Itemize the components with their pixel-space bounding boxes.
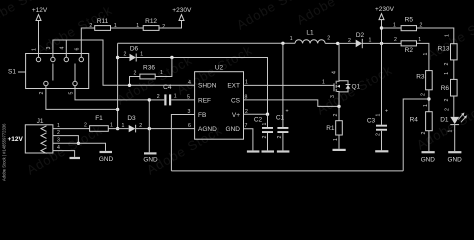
wire EXT to Q1 gate: [244, 84, 335, 86]
LED D1: [440, 108, 467, 151]
junction dot +230V rail: [380, 42, 383, 45]
diode D6: [118, 46, 172, 62]
wire V+ to node: [244, 113, 268, 115]
wire +12V to S1 pin1: [38, 21, 40, 58]
resistor R5: [382, 17, 454, 44]
svg-text:1: 1: [32, 48, 38, 51]
wire S1 pin5 to C4/REF row: [75, 86, 149, 100]
wire J1 pin3 to ground: [53, 143, 106, 151]
svg-text:1: 1: [110, 123, 113, 129]
svg-text:R4: R4: [410, 116, 419, 123]
svg-text:2: 2: [134, 71, 137, 77]
svg-text:REF: REF: [198, 97, 211, 104]
svg-text:+: +: [286, 109, 289, 115]
svg-text:GND: GND: [143, 157, 158, 164]
svg-text:2: 2: [333, 114, 339, 117]
ground C3: [375, 150, 388, 152]
svg-text:1: 1: [393, 23, 396, 29]
svg-text:2: 2: [39, 92, 45, 95]
svg-text:C2: C2: [254, 117, 263, 124]
svg-text:+230V: +230V: [172, 7, 192, 14]
resistor R11: [89, 18, 117, 30]
power +230V right: [375, 6, 395, 20]
wire S1 pin6 up to R11: [81, 28, 94, 57]
wire F1 to D3: [108, 128, 128, 130]
svg-text:2: 2: [157, 94, 160, 100]
junction dot V+ node: [266, 113, 269, 116]
junction dot D6/R36: [170, 56, 173, 59]
svg-text:1: 1: [122, 123, 125, 129]
svg-text:2: 2: [89, 23, 92, 29]
junction dot D6 row: [116, 56, 119, 59]
svg-text:FB: FB: [198, 112, 206, 119]
svg-text:1: 1: [448, 130, 454, 133]
svg-text:2: 2: [420, 23, 423, 29]
svg-text:+12V: +12V: [8, 136, 24, 143]
junction dot pin2/pin3: [77, 142, 80, 145]
svg-text:R12: R12: [145, 18, 157, 25]
svg-text:R1: R1: [326, 125, 335, 132]
wire FB to bottom rail: [171, 115, 194, 171]
svg-text:1: 1: [290, 36, 293, 42]
svg-text:J1: J1: [37, 118, 44, 125]
wire node to ground: [148, 129, 150, 153]
svg-text:6: 6: [188, 123, 191, 129]
svg-text:1: 1: [445, 34, 451, 37]
svg-text:2: 2: [124, 52, 127, 58]
transistor Q1: [322, 43, 361, 106]
ground U2 pin7: [247, 150, 260, 152]
wire S1 pin3/pin4 rail to SHDN: [53, 40, 195, 85]
junction dot REF row C4: [148, 98, 151, 101]
svg-text:1: 1: [322, 80, 325, 86]
svg-text:2: 2: [444, 63, 450, 66]
svg-text:1: 1: [423, 53, 429, 56]
svg-text:R6: R6: [441, 85, 450, 92]
svg-text:+: +: [385, 109, 388, 115]
power +12V: [32, 7, 48, 21]
svg-text:4: 4: [332, 71, 338, 74]
junction dot R36/SHDN: [128, 84, 131, 87]
wire CS to source node: [244, 100, 340, 107]
svg-text:3: 3: [188, 109, 191, 115]
svg-text:CS: CS: [231, 97, 241, 104]
svg-text:R5: R5: [405, 17, 414, 24]
junction dot Q1 source node: [337, 105, 340, 108]
connector J1: [8, 118, 61, 153]
svg-text:3: 3: [46, 47, 52, 50]
wire L1 to D2: [325, 42, 356, 44]
capacitor C3: [367, 109, 388, 151]
ground R4: [421, 151, 436, 163]
svg-text:R3: R3: [416, 74, 425, 81]
svg-text:1: 1: [369, 38, 372, 44]
svg-text:6: 6: [75, 48, 81, 51]
svg-text:U2: U2: [215, 65, 224, 72]
svg-text:1: 1: [262, 123, 268, 126]
wire D3 to AGND pin: [136, 128, 195, 130]
svg-text:2: 2: [421, 93, 427, 96]
svg-text:SHDN: SHDN: [198, 83, 217, 90]
svg-text:5: 5: [68, 92, 74, 95]
diode D3: [122, 115, 143, 133]
wire U2 GND pin to ground: [244, 129, 253, 151]
svg-text:Adobe Stock | #148559772336: Adobe Stock | #148559772336: [2, 123, 7, 181]
svg-text:2: 2: [376, 133, 382, 136]
svg-text:1: 1: [174, 94, 177, 100]
bottom rail (feedback): [171, 170, 403, 172]
svg-text:R2: R2: [405, 47, 414, 54]
resistor R4: [410, 104, 433, 151]
svg-text:4: 4: [188, 80, 191, 86]
wire J1 pin1 to F1: [53, 128, 90, 130]
resistor R2: [394, 37, 429, 71]
svg-text:1: 1: [418, 37, 421, 43]
svg-text:EXT: EXT: [227, 83, 240, 90]
svg-text:3: 3: [330, 95, 336, 98]
svg-text:C4: C4: [163, 84, 172, 91]
svg-text:L1: L1: [306, 30, 314, 37]
svg-text:V+: V+: [232, 112, 240, 119]
resistor R3: [416, 71, 432, 112]
ground C2: [262, 150, 275, 152]
svg-text:GND: GND: [421, 157, 436, 164]
svg-text:4: 4: [60, 47, 66, 50]
junction dot Q1 drain tap: [336, 42, 339, 45]
junction dot R3/R4: [427, 97, 430, 100]
diode D2: [348, 32, 372, 48]
svg-text:R11: R11: [97, 18, 109, 25]
svg-text:R36: R36: [143, 65, 155, 72]
svg-text:2: 2: [84, 123, 87, 129]
wire D6 row to V+ drop: [172, 58, 268, 115]
svg-text:GND: GND: [226, 126, 241, 133]
resistor R13: [438, 34, 458, 79]
svg-text:2: 2: [162, 24, 165, 30]
ground D1: [447, 151, 462, 163]
ground C1: [277, 150, 290, 152]
svg-text:2: 2: [394, 37, 397, 43]
capacitor C2: [254, 114, 273, 150]
svg-text:1: 1: [333, 138, 339, 141]
wire R12 to +230V: [159, 21, 182, 29]
svg-text:GND: GND: [447, 157, 462, 164]
svg-text:1: 1: [376, 114, 382, 117]
wire R11 to R12: [111, 27, 144, 29]
junction dot R5 row: [380, 26, 383, 29]
wire S1 pin2 to bus: [46, 86, 118, 110]
svg-text:2: 2: [445, 108, 451, 111]
svg-text:2: 2: [421, 132, 427, 135]
watermark: [0, 0, 474, 181]
resistor R36: [130, 58, 172, 86]
fuse F1: [84, 115, 113, 131]
inductor L1: [290, 30, 331, 44]
svg-text:3: 3: [57, 138, 60, 144]
svg-text:AGND: AGND: [198, 126, 217, 133]
capacitor C4: [149, 84, 194, 105]
wire C4 node down to AGND row: [148, 100, 150, 129]
wire S1 pin4 stub: [65, 40, 67, 57]
svg-text:1: 1: [444, 72, 450, 75]
svg-text:F1: F1: [95, 115, 103, 122]
svg-text:+12V: +12V: [32, 7, 48, 14]
svg-text:7: 7: [245, 123, 248, 129]
svg-text:1: 1: [140, 52, 143, 58]
junction dot C1 tap: [281, 42, 284, 45]
svg-text:GND: GND: [99, 156, 114, 163]
junction dot D3/C4 ground node: [148, 127, 151, 130]
svg-text:1: 1: [245, 80, 248, 86]
wire R3/R4 node to bottom rail: [403, 99, 429, 171]
svg-text:2: 2: [327, 36, 330, 42]
svg-text:Q1: Q1: [352, 84, 361, 91]
svg-text:D3: D3: [127, 115, 136, 122]
svg-text:5: 5: [187, 95, 190, 101]
junction dot AGND row join: [116, 127, 119, 130]
svg-text:+230V: +230V: [375, 6, 395, 13]
resistor R1: [326, 106, 342, 148]
wire J1 pin4 to ground: [53, 151, 75, 157]
ground D3 node: [143, 152, 158, 163]
op-amp/controller U2: [187, 65, 248, 140]
wire rail A to L1: [118, 42, 295, 44]
svg-text:2: 2: [277, 136, 283, 139]
wire D2 to R2: [362, 42, 401, 44]
ground J1 pin4: [70, 157, 81, 159]
svg-text:D2: D2: [356, 32, 365, 39]
svg-text:R13: R13: [438, 46, 450, 53]
svg-text:1: 1: [136, 23, 139, 29]
svg-text:D6: D6: [130, 46, 139, 53]
resistor R6: [441, 72, 457, 117]
svg-text:2: 2: [348, 38, 351, 44]
svg-text:C3: C3: [367, 118, 376, 125]
junction dot S1 pin2 join: [116, 108, 119, 111]
svg-text:2: 2: [444, 99, 450, 102]
node vertical bus x=117.6: [117, 43, 119, 128]
capacitor C1: [276, 43, 289, 150]
svg-text:1: 1: [423, 104, 429, 107]
ground J1 pin3: [99, 151, 114, 163]
svg-text:S1: S1: [8, 69, 16, 76]
power +230V left: [172, 7, 192, 21]
svg-text:2: 2: [262, 136, 268, 139]
svg-text:D1: D1: [440, 117, 449, 124]
wire +230V vertical to C3: [381, 20, 383, 125]
wire J1 pin2 joins pin3: [53, 136, 79, 144]
svg-text:1: 1: [160, 70, 163, 76]
ground R1: [333, 149, 346, 151]
switch S1: [8, 47, 89, 95]
resistor R12: [136, 18, 165, 30]
